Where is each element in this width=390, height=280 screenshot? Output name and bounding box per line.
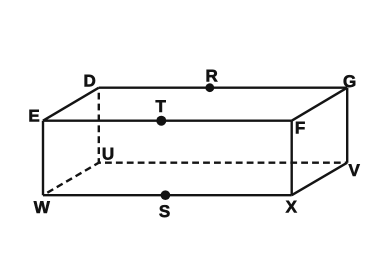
svg-text:T: T — [156, 97, 167, 116]
wire hidden edge W-U (dashed bottom left depth) — [43, 163, 99, 196]
svg-text:X: X — [286, 198, 298, 217]
wire edge E-F (front top) — [43, 119, 292, 121]
svg-text:W: W — [34, 198, 51, 217]
wire hidden edge D-U (dashed back left vertical) — [98, 88, 100, 163]
wire edge F-G (top right depth) — [292, 88, 348, 121]
svg-text:G: G — [343, 72, 356, 91]
node R (point on edge DG) — [205, 83, 214, 92]
wire edge G-V (back right vertical) — [346, 88, 348, 163]
svg-text:F: F — [295, 118, 305, 137]
wire edge E-W (front left vertical) — [42, 121, 44, 196]
svg-text:D: D — [84, 72, 96, 91]
svg-text:S: S — [159, 202, 170, 221]
node S (point on edge WX) — [161, 190, 171, 200]
node T (point on edge EF) — [156, 116, 166, 126]
svg-text:U: U — [102, 145, 114, 164]
svg-text:V: V — [349, 161, 361, 180]
wire edge E-D (top left depth) — [43, 88, 99, 121]
wire edge D-G (back top) — [99, 86, 347, 88]
wire edge X-V (bottom right depth) — [292, 163, 348, 196]
wire edge F-X (front right vertical) — [291, 121, 293, 196]
svg-text:R: R — [205, 67, 217, 86]
wire edge W-X (front bottom) — [43, 194, 292, 196]
svg-text:E: E — [28, 107, 39, 126]
wire hidden edge U-V (dashed back bottom) — [99, 161, 347, 163]
